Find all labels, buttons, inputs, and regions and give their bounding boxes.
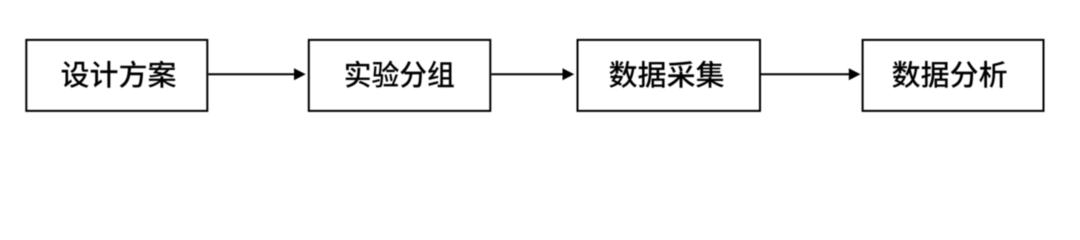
arrow from box 1 to box 2: [208, 73, 295, 75]
process box 3 "数据采集" (data-collection): [578, 40, 761, 111]
arrow from box 2 to box 3: [491, 73, 564, 75]
process box 4 "数据分析" (data-analysis): [863, 40, 1044, 111]
process box 2 "实验分组" (experiment-grouping): [309, 40, 491, 111]
label text "数据分析": [892, 61, 1006, 88]
label text "实验分组": [346, 61, 454, 88]
process box 1 "设计方案" (design-plan): [26, 40, 207, 111]
label text "数据采集": [609, 61, 723, 88]
label text "设计方案": [62, 61, 176, 88]
arrow from box 3 to box 4: [761, 73, 850, 75]
